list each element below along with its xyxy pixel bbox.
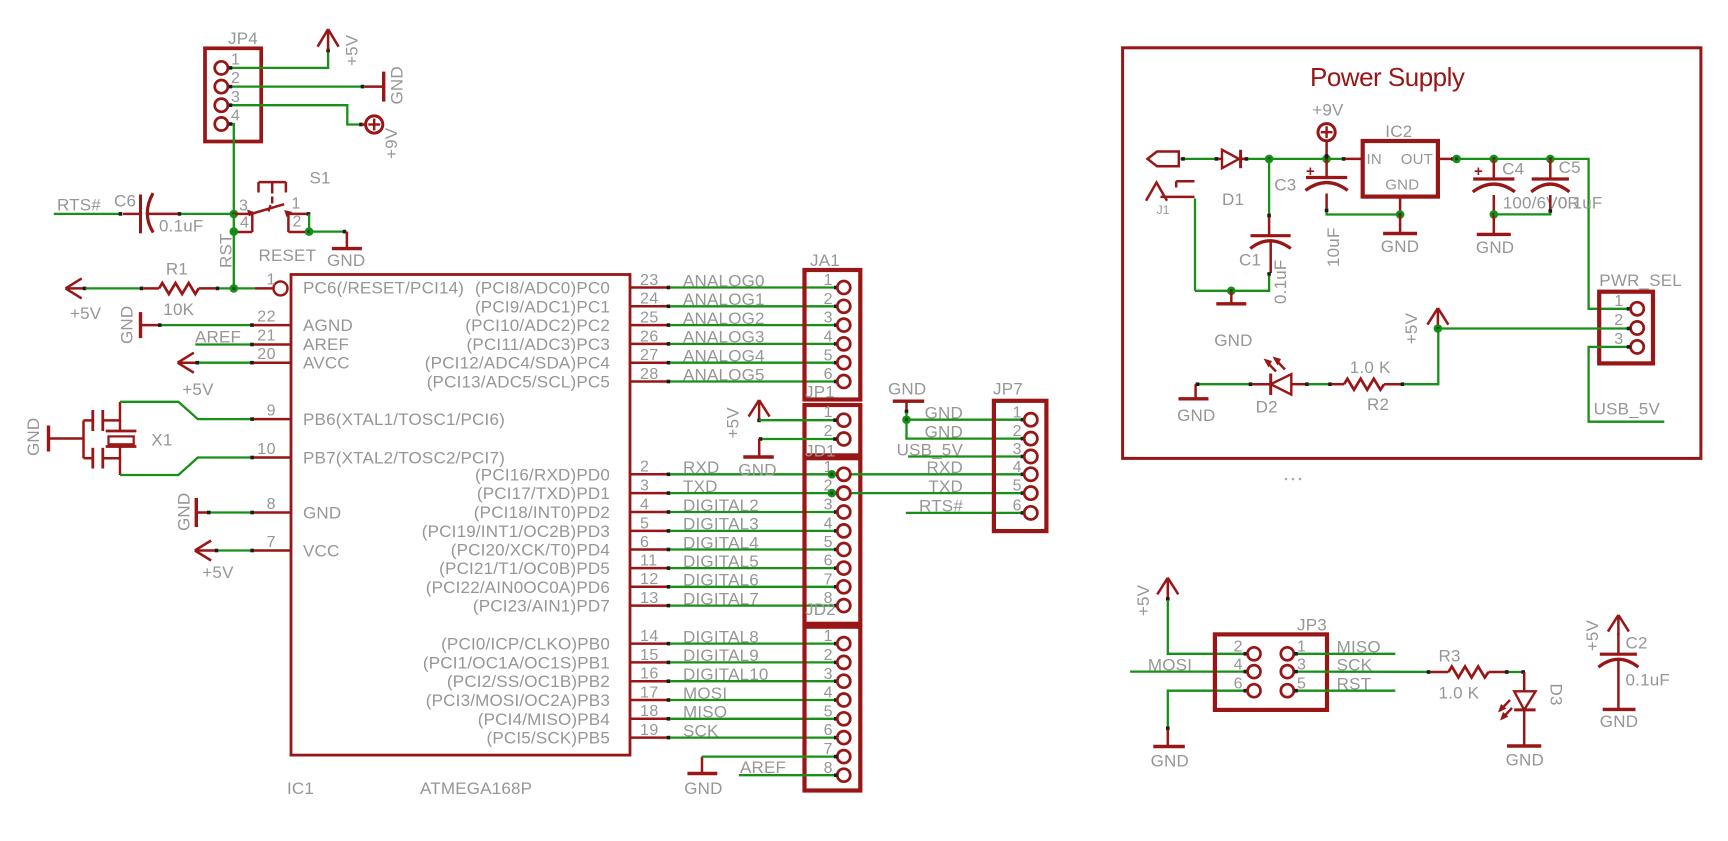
pin 3 stub and number <box>630 478 667 495</box>
pin 24 stub and number <box>630 291 667 308</box>
+9V supply symbol <box>362 116 401 159</box>
svg-text:1: 1 <box>1013 404 1022 421</box>
svg-text:GND: GND <box>24 418 43 456</box>
IC1 right pin names <box>422 279 610 748</box>
wire AVCC <box>196 361 292 365</box>
wire R3 to D3 <box>1505 670 1525 691</box>
svg-text:R2: R2 <box>1367 395 1389 414</box>
net label DIGITAL10 <box>683 665 769 684</box>
IC1 left pin numbers <box>257 309 276 551</box>
svg-text:S1: S1 <box>310 169 331 188</box>
wire MOSI net <box>667 698 838 702</box>
pin 13 stub and number <box>630 590 667 607</box>
svg-text:1: 1 <box>292 196 301 213</box>
wire RTS# to C6 <box>54 212 139 216</box>
wire DIGITAL4 net <box>667 548 838 552</box>
svg-text:DIGITAL4: DIGITAL4 <box>683 533 759 552</box>
wire +5V to JP3 pin2 <box>1168 600 1247 656</box>
node junction C4 <box>1490 155 1499 164</box>
ground symbol (JP1) <box>738 439 776 480</box>
wire PWR_SEL pin3 to USB_5V <box>1589 345 1665 422</box>
svg-text:D1: D1 <box>1222 190 1244 209</box>
net label RXD <box>683 458 720 477</box>
net label MOSI <box>683 684 727 703</box>
svg-text:6: 6 <box>1013 498 1022 515</box>
regulator IC2 <box>1363 122 1438 196</box>
net label DIGITAL7 <box>683 589 759 608</box>
svg-text:6: 6 <box>1234 676 1243 693</box>
svg-text:(PCI16/RXD)PD0: (PCI16/RXD)PD0 <box>475 465 610 484</box>
svg-text:ANALOG4: ANALOG4 <box>683 347 765 366</box>
svg-text:1.0 K: 1.0 K <box>1350 358 1391 377</box>
svg-text:GND: GND <box>1476 238 1514 257</box>
net label ANALOG2 <box>683 309 765 328</box>
node junction OUT <box>1452 155 1461 164</box>
svg-text:DIGITAL2: DIGITAL2 <box>683 496 759 515</box>
svg-text:GND: GND <box>1506 751 1544 770</box>
svg-text:4: 4 <box>1013 459 1022 476</box>
svg-text:2: 2 <box>1614 312 1623 329</box>
connector JA1 <box>805 251 861 400</box>
svg-text:0.1uF: 0.1uF <box>1271 260 1290 304</box>
wire D2 to R2 <box>1305 382 1332 386</box>
net label ANALOG0 <box>683 271 765 290</box>
svg-text:2: 2 <box>1013 423 1022 440</box>
resistor R3 1.0 K <box>1430 646 1506 702</box>
net label DIGITAL2 <box>683 496 759 515</box>
svg-text:23: 23 <box>640 272 659 289</box>
svg-text:+5V: +5V <box>182 380 214 399</box>
wire GND to JP3 pin6 <box>1166 689 1247 730</box>
pin 26 stub and number <box>630 328 667 345</box>
small dots <box>1285 478 1288 481</box>
svg-text:11: 11 <box>640 553 658 570</box>
svg-text:21: 21 <box>257 327 276 344</box>
ground symbol (C4) <box>1476 214 1514 257</box>
svg-text:C1: C1 <box>1239 251 1261 270</box>
svg-text:GND: GND <box>1177 406 1215 425</box>
svg-text:(PCI21/T1/OC0B)PD5: (PCI21/T1/OC0B)PD5 <box>439 559 610 578</box>
wire D3 to GND <box>1523 710 1526 745</box>
net label DIGITAL8 <box>683 627 759 646</box>
svg-text:(PCI22/AIN0OC0A)PD6: (PCI22/AIN0OC0A)PD6 <box>426 578 610 597</box>
svg-text:5: 5 <box>640 515 649 532</box>
resonator X1 <box>84 402 173 475</box>
resistor R1 10K <box>143 260 216 320</box>
svg-text:24: 24 <box>640 291 659 308</box>
svg-text:ANALOG5: ANALOG5 <box>683 365 765 384</box>
wire IC2 OUT rail <box>1438 157 1630 311</box>
LED D3 <box>1498 684 1566 721</box>
svg-text:AGND: AGND <box>303 316 353 335</box>
svg-text:3: 3 <box>1013 441 1022 458</box>
svg-text:USB_5V: USB_5V <box>1594 399 1661 418</box>
svg-text:7: 7 <box>267 534 276 551</box>
svg-text:JP3: JP3 <box>1297 616 1327 635</box>
+5V symbol (JP4) <box>318 29 362 66</box>
wire MOSI to JP3 pin4 <box>1130 670 1246 672</box>
svg-text:4: 4 <box>824 516 833 533</box>
net label DIGITAL3 <box>683 515 759 534</box>
resistor R2 1.0 K <box>1331 358 1401 414</box>
wire SCK from JP3 pin3 to R3 <box>1294 670 1430 674</box>
connector JP3 <box>1215 616 1327 710</box>
svg-text:3: 3 <box>640 478 649 495</box>
svg-text:(PCI19/INT1/OC2B)PD3: (PCI19/INT1/OC2B)PD3 <box>422 522 610 541</box>
connector JP1 <box>805 383 861 456</box>
ground symbol (S1) <box>327 232 365 270</box>
svg-text:(PCI9/ADC1)PC1: (PCI9/ADC1)PC1 <box>475 297 610 316</box>
pin 11 stub and number <box>630 553 667 570</box>
svg-text:2: 2 <box>1234 639 1243 656</box>
svg-text:DIGITAL6: DIGITAL6 <box>683 571 759 590</box>
svg-text:DIGITAL5: DIGITAL5 <box>683 552 759 571</box>
svg-text:GND: GND <box>175 493 194 531</box>
svg-text:4: 4 <box>640 496 649 513</box>
svg-text:D2: D2 <box>1256 398 1278 417</box>
wire DIGITAL5 net <box>667 566 838 570</box>
svg-text:RST: RST <box>217 233 236 268</box>
svg-text:1: 1 <box>267 272 276 289</box>
wire GND pin8 <box>207 511 291 515</box>
svg-text:(PCI4/MISO)PB4: (PCI4/MISO)PB4 <box>478 710 610 729</box>
svg-text:6: 6 <box>640 534 649 551</box>
svg-text:GND: GND <box>738 461 776 480</box>
svg-text:GND: GND <box>684 779 722 798</box>
svg-text:6: 6 <box>824 722 833 739</box>
wire AGND <box>158 323 291 327</box>
wire JP1 pin1 <box>757 418 837 422</box>
svg-text:RESET: RESET <box>259 246 317 265</box>
svg-text:17: 17 <box>640 684 659 701</box>
svg-text:AVCC: AVCC <box>303 354 350 373</box>
wire GND to D2 <box>1196 382 1271 386</box>
wire X1 to PB7 <box>120 456 291 475</box>
svg-text:JD2: JD2 <box>805 600 836 619</box>
svg-text:4: 4 <box>240 215 249 232</box>
svg-text:ANALOG2: ANALOG2 <box>683 309 765 328</box>
svg-text:(PCI11/ADC3)PC3: (PCI11/ADC3)PC3 <box>467 335 610 354</box>
+5V symbol (JP1) <box>724 400 770 439</box>
svg-text:4: 4 <box>824 685 833 702</box>
pin 27 stub and number <box>630 347 667 364</box>
node junction C4 bottom <box>1490 210 1499 219</box>
svg-text:2: 2 <box>824 647 833 664</box>
svg-text:3: 3 <box>1614 331 1623 348</box>
svg-text:5: 5 <box>824 703 833 720</box>
wire GND to JP7 pins 1,2 <box>907 413 1025 441</box>
svg-text:C6: C6 <box>114 192 136 211</box>
svg-text:2: 2 <box>824 423 833 440</box>
+5V symbol (VCC pin7) <box>195 541 234 583</box>
svg-text:0.1uF: 0.1uF <box>1558 194 1602 213</box>
wire AREF stub <box>195 343 291 347</box>
svg-text:6: 6 <box>824 366 833 383</box>
svg-text:(PCI3/MOSI/OC2A)PB3: (PCI3/MOSI/OC2A)PB3 <box>426 691 610 710</box>
svg-text:(PCI0/ICP/CLKO)PB0: (PCI0/ICP/CLKO)PB0 <box>441 635 610 654</box>
net label DIGITAL5 <box>683 552 759 571</box>
pin 19 stub and number <box>630 722 667 739</box>
svg-text:VCC: VCC <box>303 542 340 561</box>
pin 4 stub and number <box>630 496 667 513</box>
wire DIGITAL2 net <box>667 510 838 514</box>
net label ANALOG4 <box>683 347 765 366</box>
svg-text:20: 20 <box>257 346 276 363</box>
power jack J1 <box>1146 152 1195 218</box>
switch S1 (RESET) <box>234 169 331 266</box>
svg-text:10uF: 10uF <box>1324 227 1343 267</box>
wire RST from JP3 pin5 <box>1295 690 1396 692</box>
svg-text:10: 10 <box>257 441 276 458</box>
net label DIGITAL4 <box>683 533 759 552</box>
ground symbol (JD2 pin7) <box>684 757 722 798</box>
connector JP4 <box>205 29 261 142</box>
svg-text:GND: GND <box>1600 712 1638 731</box>
ground symbol (C1) <box>1214 291 1252 350</box>
svg-text:GND: GND <box>303 504 341 523</box>
svg-text:4: 4 <box>1234 657 1243 674</box>
svg-text:MOSI: MOSI <box>683 684 727 703</box>
svg-text:5: 5 <box>1013 478 1022 495</box>
node RST junction at C6 <box>230 210 239 219</box>
wire DIGITAL9 net <box>667 661 838 665</box>
svg-text:6: 6 <box>824 553 833 570</box>
wire RXD to JP7 pin4 <box>837 473 1024 477</box>
op-amp IC1 ATMEGA168P body <box>291 275 630 756</box>
LED D2 <box>1256 357 1306 417</box>
svg-text:4: 4 <box>824 329 833 346</box>
svg-text:X1: X1 <box>151 431 172 450</box>
svg-text:C3: C3 <box>1274 175 1296 194</box>
pin 23 stub and number <box>630 272 667 289</box>
node junction +5V R2 <box>1434 324 1443 333</box>
net label SCK <box>683 721 719 740</box>
svg-text:GND: GND <box>1385 177 1419 194</box>
svg-text:+5V: +5V <box>1402 312 1421 344</box>
svg-text:13: 13 <box>640 590 659 607</box>
wire USB_5V to JP7 pin3 <box>908 455 1024 457</box>
svg-text:ANALOG1: ANALOG1 <box>683 290 765 309</box>
net label ANALOG5 <box>683 365 765 384</box>
svg-text:AREF: AREF <box>303 335 349 354</box>
+5V symbol (C2) <box>1583 615 1629 651</box>
wire ANALOG2 net <box>667 323 838 327</box>
svg-text:C5: C5 <box>1559 158 1581 177</box>
svg-text:(PCI1/OC1A/OC1S)PB1: (PCI1/OC1A/OC1S)PB1 <box>423 653 610 672</box>
svg-text:C2: C2 <box>1626 634 1648 653</box>
svg-text:8: 8 <box>267 496 276 513</box>
wire VCC pin7 <box>215 549 291 553</box>
wire X1 to PB6 <box>120 402 291 421</box>
wire MISO net <box>667 717 838 721</box>
svg-text:26: 26 <box>640 328 659 345</box>
wire JP4 pin3 to +9V <box>229 103 363 126</box>
wire J1 to D1 <box>1181 157 1223 161</box>
svg-text:14: 14 <box>640 628 659 645</box>
svg-text:TXD: TXD <box>928 477 963 496</box>
svg-text:(PCI17/TXD)PD1: (PCI17/TXD)PD1 <box>477 484 610 503</box>
wire SCK net <box>667 736 838 740</box>
svg-text:PC6(/RESET/PCI14): PC6(/RESET/PCI14) <box>303 279 464 298</box>
pin 12 stub and number <box>630 571 667 588</box>
svg-text:18: 18 <box>640 703 659 720</box>
wire GND to JD2 pin7 <box>702 755 838 759</box>
node junction GND JP7 <box>902 415 911 424</box>
frame Power Supply <box>1123 48 1701 459</box>
svg-text:2: 2 <box>231 70 240 87</box>
capacitor C4 100/6V <box>1473 159 1580 215</box>
wire ANALOG1 net <box>667 305 838 309</box>
svg-text:DIGITAL10: DIGITAL10 <box>683 665 769 684</box>
connector JD1 <box>805 442 861 624</box>
wire RST vertical <box>233 214 235 289</box>
svg-text:+5V: +5V <box>1583 620 1602 652</box>
ground symbol (AGND pin22) <box>118 306 159 344</box>
svg-text:1: 1 <box>231 52 240 69</box>
svg-text:0.1uF: 0.1uF <box>159 217 203 236</box>
svg-text:1: 1 <box>824 404 833 421</box>
ground symbol (IC1 pin8) <box>175 493 208 531</box>
connector JD1 pin1 circle redraw <box>837 468 850 481</box>
wire ANALOG4 net <box>667 361 838 365</box>
svg-text:R3: R3 <box>1439 646 1461 665</box>
pin 17 stub and number <box>630 684 667 701</box>
wire C6 to RST node <box>148 212 234 216</box>
svg-text:3: 3 <box>824 497 833 514</box>
wire MISO from JP3 pin1 <box>1295 653 1396 655</box>
wire TXD to JP7 pin5 <box>837 491 1024 495</box>
svg-text:D3: D3 <box>1547 684 1566 706</box>
svg-text:3: 3 <box>239 198 248 215</box>
svg-text:GND: GND <box>1151 751 1189 770</box>
capacitor C2 0.1uF <box>1598 633 1670 708</box>
svg-text:DIGITAL3: DIGITAL3 <box>683 515 759 534</box>
node RST junction at S1 pin4 <box>230 227 239 236</box>
svg-text:(PCI5/SCK)PB5: (PCI5/SCK)PB5 <box>486 729 610 748</box>
svg-text:27: 27 <box>640 347 659 364</box>
pin 14 stub and number <box>630 628 667 645</box>
connector JD2 <box>805 600 861 791</box>
wire TXD net <box>667 491 838 495</box>
pin 2 stub and number <box>630 459 667 476</box>
svg-text:DIGITAL9: DIGITAL9 <box>683 646 759 665</box>
wire DIGITAL8 net <box>667 642 838 646</box>
svg-text:12: 12 <box>640 571 659 588</box>
svg-text:IC2: IC2 <box>1385 122 1412 141</box>
wire JP4 pin4 to RST net <box>229 122 234 214</box>
+5V symbol (R1) <box>66 278 102 323</box>
wire IC2 GND to ground <box>1381 197 1419 256</box>
connector JD1 pin2 circle redraw <box>837 487 850 500</box>
wire S1 pin2 to GND <box>305 212 347 236</box>
+5V symbol (AVCC) <box>178 353 214 399</box>
svg-text:JP7: JP7 <box>993 380 1023 399</box>
svg-text:JP4: JP4 <box>228 29 258 48</box>
ground symbol (D2) <box>1177 384 1215 425</box>
svg-text:RXD: RXD <box>683 458 720 477</box>
wire D1 to IC2 IN (+9V rail) <box>1241 157 1363 161</box>
ground symbol (JP3) <box>1151 730 1189 771</box>
wire DIGITAL10 net <box>667 679 838 683</box>
svg-text:IC1: IC1 <box>287 779 314 798</box>
svg-text:+9V: +9V <box>1312 101 1344 120</box>
svg-text:JP1: JP1 <box>805 383 835 402</box>
wire JP1 pin2 <box>759 437 837 441</box>
svg-text:22: 22 <box>257 309 276 326</box>
net label ANALOG3 <box>683 328 765 347</box>
wire DIGITAL6 net <box>667 585 838 589</box>
svg-text:4: 4 <box>231 108 240 125</box>
net label ANALOG1 <box>683 290 765 309</box>
wire RXD net <box>667 473 838 477</box>
svg-text:DIGITAL7: DIGITAL7 <box>683 589 759 608</box>
svg-text:(PCI2/SS/OC1B)PB2: (PCI2/SS/OC1B)PB2 <box>447 672 610 691</box>
net label TXD <box>683 477 718 496</box>
svg-text:GND: GND <box>388 66 407 104</box>
svg-text:3: 3 <box>231 89 240 106</box>
node junction GND C1 <box>1227 287 1236 296</box>
node junction RXD at JD1 pin1 <box>828 470 837 479</box>
wire R2 to +5V node <box>1401 329 1439 387</box>
svg-text:Power Supply: Power Supply <box>1310 62 1465 92</box>
diode D1 <box>1222 150 1244 209</box>
pin 25 stub and number <box>630 310 667 327</box>
net label DIGITAL6 <box>683 571 759 590</box>
capacitor C3 10uF <box>1274 159 1399 267</box>
node junction at C3 tap <box>1265 155 1274 164</box>
svg-text:GND: GND <box>1381 237 1419 256</box>
wire ANALOG3 net <box>667 342 838 346</box>
svg-text:(PCI8/ADC0)PC0: (PCI8/ADC0)PC0 <box>475 279 610 298</box>
svg-text:GND: GND <box>1214 331 1252 350</box>
svg-text:1.0 K: 1.0 K <box>1439 683 1480 702</box>
pin 15 stub and number <box>630 647 667 664</box>
wire DIGITAL3 net <box>667 529 838 533</box>
svg-text:JA1: JA1 <box>810 251 840 270</box>
svg-text:+9V: +9V <box>382 127 401 159</box>
svg-text:(PCI12/ADC4/SDA)PC4: (PCI12/ADC4/SDA)PC4 <box>425 354 610 373</box>
svg-text:7: 7 <box>824 571 833 588</box>
pin 1 bubble (PC6/RESET) <box>255 272 288 296</box>
ground symbol (D3) <box>1506 746 1544 770</box>
svg-text:IN: IN <box>1367 151 1382 168</box>
svg-text:DIGITAL8: DIGITAL8 <box>683 627 759 646</box>
wire DIGITAL7 net <box>667 604 838 608</box>
pin 5 stub and number <box>630 515 667 532</box>
+5V symbol (PWR_SEL) <box>1402 308 1448 344</box>
svg-text:15: 15 <box>640 647 659 664</box>
net label MISO <box>683 703 727 722</box>
wire +5V to R1 <box>83 287 144 291</box>
pin 16 stub and number <box>630 666 667 683</box>
ground symbol (X1) <box>24 418 84 456</box>
svg-text:MISO: MISO <box>683 703 727 722</box>
svg-text:RXD: RXD <box>927 458 964 477</box>
wire +5V to PWR_SEL pin2 <box>1438 327 1630 331</box>
ground symbol (C2) <box>1600 709 1638 731</box>
svg-text:16: 16 <box>640 666 659 683</box>
svg-text:C4: C4 <box>1502 159 1524 178</box>
svg-text:(PCI10/ADC2)PC2: (PCI10/ADC2)PC2 <box>465 316 610 335</box>
wire ANALOG0 net <box>667 286 838 290</box>
svg-text:GND: GND <box>888 380 926 399</box>
svg-text:0.1uF: 0.1uF <box>1626 671 1670 690</box>
svg-text:1: 1 <box>824 628 833 645</box>
wire JP4 pin1 to +5V <box>229 49 330 70</box>
svg-text:2: 2 <box>824 291 833 308</box>
wire R1 to RST node <box>216 287 255 291</box>
svg-text:(PCI13/ADC5/SCL)PC5: (PCI13/ADC5/SCL)PC5 <box>427 373 610 392</box>
